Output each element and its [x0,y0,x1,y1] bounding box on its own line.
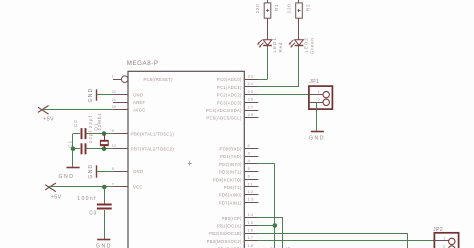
net label fragment at bottom edge (right) [286,246,291,248]
IC U1 pin 25 PC2(ADC2) [217,89,259,98]
ground GND below C3 [97,239,110,241]
svg-text:PD1(TXD): PD1(TXD) [220,154,242,159]
svg-text:220: 220 [287,3,292,13]
IC U1 origin cross [188,161,192,165]
IC U1 pin 18 PB4(MISO) [218,243,259,248]
svg-text:PD0(RXD): PD0(RXD) [220,147,242,152]
IC U1 pin 26 PC3(ADC3) [217,97,259,106]
wire IC pin 14 right then down [258,218,284,248]
supply +5V symbol P1 [38,106,49,115]
IC U1 MEGA8-P body [128,71,244,248]
svg-text:PB0(ICP): PB0(ICP) [222,216,242,221]
+5V label [43,117,54,123]
label R1 (rotated) [274,3,279,11]
IC U1 pin 11 PD5(T1) [224,181,259,190]
svg-text:4: 4 [248,158,251,163]
svg-text:14: 14 [248,212,254,217]
svg-text:28: 28 [248,112,254,117]
svg-text:AREF: AREF [133,100,146,105]
svg-text:C2: C2 [73,119,78,127]
svg-text:3: 3 [248,151,251,156]
connector JP2 [434,233,458,248]
wire IC pin 4 right then down [258,164,275,248]
svg-text:13: 13 [248,197,254,202]
svg-text:100nf: 100nf [77,196,96,202]
wire top edge to resistor R1 [267,0,269,3]
IC U1 pin 7 VCC [112,182,143,189]
svg-text:7: 7 [112,182,114,186]
wire XTAL1 net: left segment and corner down [73,134,81,149]
svg-text:21: 21 [112,98,116,102]
svg-text:220: 220 [255,3,260,13]
svg-text:PD4(XCK/T0): PD4(XCK/T0) [213,177,242,182]
svg-text:PB6(XTAL1/TOSC1): PB6(XTAL1/TOSC1) [131,131,174,136]
IC U1 pin 8 GND [112,167,143,174]
ground GND below JP1 [311,131,324,133]
svg-text:PD2(INT0): PD2(INT0) [219,162,242,167]
label C3 [89,211,97,217]
svg-text:PC2(ADC2): PC2(ADC2) [217,93,242,98]
IC U1 pin 13 PD7(AIN1) [219,197,259,206]
IC U1 pin 27 PC4(ADC4/SDA) [206,104,258,113]
value 22pf for C2 (rotated) [88,115,93,128]
IC U1 pin 2 PD0(RXD) [220,143,259,152]
svg-text:PC1(ADC1): PC1(ADC1) [217,85,242,90]
wire resistor R2 to LED LED2 [298,18,300,40]
IC U1 pin 4 PD2(INT0) [219,158,258,167]
wire caps junction down to ground [72,149,74,167]
svg-text:LED2: LED2 [304,37,309,52]
resistor R2 220 [296,3,303,18]
IC U1 pin 1 PC6(/RESET) [112,75,173,83]
wire C3 down to ground [104,210,106,239]
GND label [59,174,75,180]
color label Green (rotated) [310,37,315,54]
value 220 for R2 (rotated) [287,3,292,13]
wire resistor R1 to LED LED1 [267,18,269,40]
svg-text:MEGA8-P: MEGA8-P [127,60,159,67]
svg-text:+5V: +5V [43,117,54,123]
IC U1 pin 9 PB6(XTAL1/TOSC1) [112,129,175,136]
svg-text:1: 1 [112,75,114,79]
label R2 (rotated) [305,3,310,11]
svg-text:9: 9 [112,129,114,133]
svg-text:GND: GND [133,169,143,174]
svg-text:PC4(ADC4/SDA): PC4(ADC4/SDA) [206,108,242,113]
value 12Mhz for Q1 (rotated) [97,112,102,130]
svg-text:2: 2 [443,243,445,248]
svg-text:10: 10 [112,144,116,148]
svg-text:27: 27 [248,104,254,109]
crystal Q1 12Mhz [100,134,109,149]
ground GND at IC pin 22 [96,89,98,100]
svg-text:PD6(AIN0): PD6(AIN0) [219,193,242,198]
svg-text:22pf: 22pf [88,115,93,128]
svg-text:23: 23 [248,74,254,79]
svg-text:PC3(ADC3): PC3(ADC3) [217,100,242,105]
svg-text:PB7(XTAL2/TOSC2): PB7(XTAL2/TOSC2) [131,147,174,152]
svg-text:JP1: JP1 [309,79,319,85]
value 22pf for C1 (rotated) [88,130,93,143]
JP1 pin 2 [309,97,330,106]
wire IC pin 15 to junction [258,225,275,227]
color label Red (rotated) [278,42,283,53]
svg-text:GND: GND [88,87,94,102]
svg-text:PC0(ADC0): PC0(ADC0) [217,77,242,82]
svg-text:5: 5 [248,166,251,171]
IC U1 pin 22 GND [112,90,143,97]
svg-text:C1: C1 [68,140,73,148]
svg-text:R1: R1 [274,3,279,11]
svg-text:16: 16 [248,228,254,233]
GND label (rotated) [88,87,94,102]
wire XTAL2 net: C1 to IC pin 10 [87,148,113,150]
wire LED1 cathode down to PC0 net [267,45,269,79]
LED LED1 Red [263,40,272,46]
svg-text:GND: GND [309,135,325,141]
wire XTAL1 net: C2 to IC pin 9 [87,133,113,135]
net label fragment at bottom edge (left) [270,246,275,248]
label JP2 [433,227,443,233]
JP2 pin 2 (clipped) [434,243,455,248]
svg-text:24: 24 [248,81,254,86]
wire +5V to AVCC pin 20 [42,109,113,111]
svg-text:22pf: 22pf [88,130,93,143]
svg-text:PD7(AIN1): PD7(AIN1) [219,200,242,205]
IC U1 pin 5 PD3(INT1) [219,166,258,175]
ground GND at IC pin 8 [96,165,98,177]
wire IC pin 24 to LED2 column [258,86,300,88]
svg-text:2: 2 [318,97,320,102]
svg-text:GND: GND [96,244,112,248]
value 100nf for C3 [77,196,96,202]
+5V label [51,195,62,201]
svg-text:25: 25 [248,89,254,94]
GND label (rotated) [88,164,94,179]
wire GND bar to pin 22 [97,94,113,96]
label LED2 (rotated) [304,37,309,52]
ground GND below crystal caps [66,167,79,169]
capacitor C1 (22pf, series plates) [82,143,86,154]
wire VCC junction down to C3 [104,187,106,204]
svg-text:18: 18 [248,243,254,248]
svg-text:VCC: VCC [133,185,143,190]
IC U1 pin 21 AREF [112,98,146,105]
svg-text:2: 2 [248,143,251,148]
wire LED2 cathode down to PC1 net [298,45,300,87]
svg-text:15: 15 [248,220,254,225]
svg-text:GND: GND [88,164,94,179]
wire IC pin 17 to JP2 pin 1 [258,240,435,242]
svg-text:GND: GND [133,93,143,98]
label C2 (rotated) [73,119,78,127]
wire GND bar to pin 8 [97,171,113,173]
LED LED2 Green [295,40,304,46]
IC U1 pin 15 PB1(OC1A) [217,220,259,229]
svg-text:11: 11 [248,181,254,186]
svg-text:GND: GND [59,174,75,180]
wire XTAL2 net: left segment [73,148,80,150]
JP1 pin 1 [309,89,330,98]
junction node caps to ground corner [71,147,76,152]
svg-text:17: 17 [248,235,254,240]
IC U1 pin 28 PC5(ADC5/SCL) [206,112,258,121]
IC U1 pin 6 PD4(XCK/T0) [213,174,259,183]
svg-text:LED1: LED1 [272,37,277,52]
svg-text:AVCC: AVCC [133,108,146,113]
IC U1 pin 3 PD1(TXD) [220,151,258,160]
wire +5V to VCC pin 7 [49,186,113,188]
svg-text:8: 8 [112,167,114,171]
wire top edge to resistor R2 [298,0,300,3]
IC U1 pin 24 PC1(ADC1) [217,81,259,90]
svg-text:Green: Green [310,37,315,54]
value 220 for R1 (rotated) [255,3,260,13]
GND label (clipped at bottom) [96,244,112,248]
svg-text:6: 6 [248,174,251,179]
GND label [309,135,325,141]
IC U1 pin 10 PB7(XTAL2/TOSC2) [112,144,175,151]
svg-text:C3: C3 [89,211,97,217]
wire IC pin 16 right then down toward JP2 pin 2 [258,233,408,248]
svg-text:R2: R2 [305,3,310,11]
supply +5V symbol P2 [45,183,56,192]
junction node VCC / C3 tap [102,185,107,190]
label LED1 (rotated) [272,37,277,52]
svg-text:Red: Red [278,42,283,53]
svg-text:22: 22 [112,90,116,94]
IC U1 pin 23 PC0(ADC0) [217,74,259,83]
capacitor C3 100nf [97,205,112,209]
LED LED2 emission arrows [289,40,295,48]
wire IC pin 23 to LED1 column [258,79,268,81]
label C1 (rotated) [68,140,73,148]
svg-text:PB1(OC1A): PB1(OC1A) [217,224,242,229]
resistor R1 220 [264,3,271,18]
svg-text:PD3(INT1): PD3(INT1) [219,170,242,175]
svg-text:12Mhz: 12Mhz [97,112,102,130]
svg-text:26: 26 [248,97,254,102]
label JP1 [309,79,319,85]
svg-text:1: 1 [443,235,445,240]
capacitor C2 (22pf, series plates) [82,128,86,139]
JP2 pin 1 [434,235,455,244]
svg-text:PB2(SS/OC1B): PB2(SS/OC1B) [209,231,242,236]
wire IC pin 25 to JP1 pin 1 [258,94,309,96]
IC U1 name label MEGA8-P [127,60,159,67]
IC U1 pin 20 AVCC [112,105,146,112]
connector JP1 [309,86,333,109]
svg-text:PC5(ADC5/SCL): PC5(ADC5/SCL) [206,116,242,121]
svg-text:PC6(/RESET): PC6(/RESET) [144,77,174,82]
IC U1 pin 17 PB3(MOSI/OC2) [207,235,259,244]
svg-text:PD5(T1): PD5(T1) [224,185,242,190]
label Q1 (rotated) [93,122,98,130]
IC U1 pin 16 PB2(SS/OC1B) [209,228,258,237]
IC U1 pin 12 PD6(AIN0) [219,189,259,198]
svg-text:1: 1 [318,89,320,94]
junction node PB1 net on vertical wire [273,223,278,228]
junction node XTAL1 at crystal top [102,131,107,136]
LED LED1 emission arrows [257,40,263,48]
wire JP1 pin 2 down to ground [316,102,318,130]
svg-text:12: 12 [248,189,254,194]
svg-text:JP2: JP2 [433,227,443,233]
junction node XTAL2 at crystal bottom [102,147,107,152]
IC U1 pin 14 PB0(ICP) [222,212,259,221]
svg-text:+5V: +5V [51,195,62,201]
svg-text:20: 20 [112,105,116,109]
svg-text:PB3(MOSI/OC2): PB3(MOSI/OC2) [207,239,242,244]
